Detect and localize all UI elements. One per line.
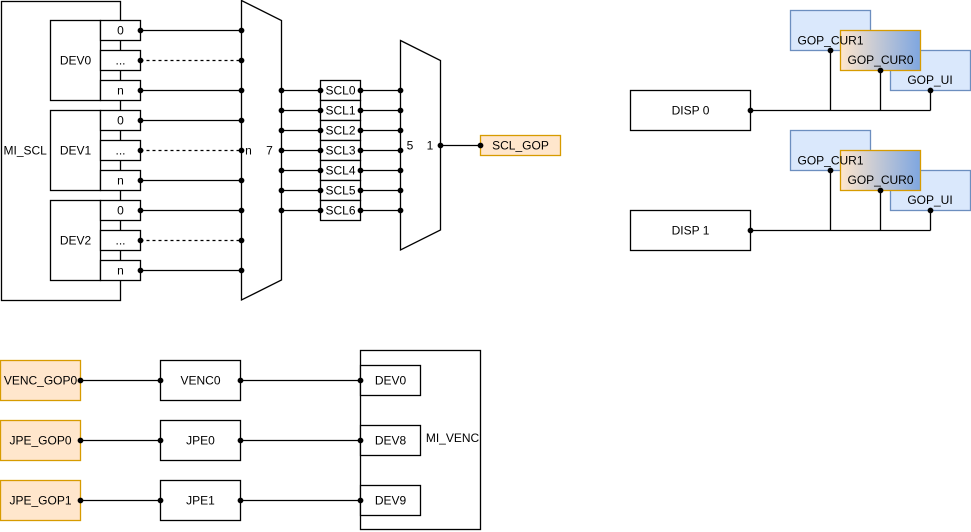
port DEV2.0 xyxy=(101,201,141,221)
wire DEV1.0 to mux1 xyxy=(138,118,245,124)
block DEV1 xyxy=(51,111,101,191)
block VENC0 xyxy=(161,361,241,401)
wire DEV0.dots to mux1 xyxy=(138,58,245,64)
block DEV0 xyxy=(51,21,101,101)
wire VENC_GOP0 to VENC0 xyxy=(78,378,164,384)
svg-text:SCL2: SCL2 xyxy=(325,124,355,138)
wire SCL4 to mux2 xyxy=(358,168,404,174)
block DEV2 xyxy=(51,201,101,281)
block GOP_UI (DISP1) xyxy=(891,171,971,211)
wire SCL1 to mux2 xyxy=(358,108,404,114)
port DEV1.n xyxy=(101,171,141,191)
block SCL1 xyxy=(321,101,361,121)
block DEV8 (MI_VENC) xyxy=(361,426,421,456)
node VENC_GOP0 xyxy=(1,361,81,401)
block JPE1 xyxy=(161,481,241,521)
block SCL4 xyxy=(321,161,361,181)
wire DEV0.0 to mux1 xyxy=(138,28,245,34)
wire mux1 to SCL0 xyxy=(279,88,324,94)
svg-text:GOP_CUR1: GOP_CUR1 xyxy=(797,34,863,48)
block SCL5 xyxy=(321,181,361,201)
wire SCL3 to mux2 xyxy=(358,148,404,154)
label GOP_UI (DISP1) xyxy=(907,193,952,207)
wire SCL6 to mux2 xyxy=(358,208,404,214)
port DEV1.dots xyxy=(101,141,141,161)
svg-text:SCL5: SCL5 xyxy=(325,184,355,198)
svg-text:DEV0: DEV0 xyxy=(60,54,92,68)
svg-text:VENC0: VENC0 xyxy=(180,374,220,388)
mux U2 (5-to-1 selector) xyxy=(401,41,441,251)
svg-text:n: n xyxy=(245,144,252,158)
block DISP 0 xyxy=(631,91,751,131)
svg-text:GOP_UI: GOP_UI xyxy=(907,193,952,207)
svg-text:1: 1 xyxy=(427,139,434,153)
label GOP_CUR0 (DISP0) xyxy=(847,53,913,67)
block SCL0 xyxy=(321,81,361,101)
block DISP 1 xyxy=(631,211,751,251)
svg-text:7: 7 xyxy=(266,144,273,158)
wire mux1 to SCL6 xyxy=(279,208,324,214)
block DEV0 (MI_VENC) xyxy=(361,366,421,396)
svg-text:0: 0 xyxy=(117,24,124,38)
wire DEV2.dots to mux1 xyxy=(138,238,245,244)
svg-text:n: n xyxy=(117,264,124,278)
label GOP_CUR1 (DISP1) xyxy=(797,154,863,168)
wire mux1 to SCL2 xyxy=(279,128,324,134)
svg-text:DISP 0: DISP 0 xyxy=(672,104,710,118)
wire DISP1 bus xyxy=(748,168,934,234)
svg-text:JPE_GOP1: JPE_GOP1 xyxy=(9,494,71,508)
svg-text:JPE1: JPE1 xyxy=(186,494,215,508)
svg-text:DEV0: DEV0 xyxy=(375,374,407,388)
block SCL3 xyxy=(321,141,361,161)
svg-text:0: 0 xyxy=(117,114,124,128)
port DEV0.n xyxy=(101,81,141,101)
block MI_VENC xyxy=(361,351,481,530)
wire DEV0.n to mux1 xyxy=(138,88,245,94)
wire DEV1.n to mux1 xyxy=(138,178,245,184)
svg-text:JPE_GOP0: JPE_GOP0 xyxy=(9,434,71,448)
svg-text:GOP_CUR1: GOP_CUR1 xyxy=(797,154,863,168)
svg-text:0: 0 xyxy=(117,204,124,218)
label GOP_UI (DISP0) xyxy=(907,73,952,87)
mux U1 (n-to-7 crossbar) xyxy=(242,1,282,301)
block GOP_UI (DISP0) xyxy=(891,51,971,91)
block GOP_CUR0 (DISP1) xyxy=(841,151,921,191)
wire SCL2 to mux2 xyxy=(358,128,404,134)
wire DEV2.n to mux1 xyxy=(138,268,245,274)
svg-text:SCL4: SCL4 xyxy=(325,164,355,178)
svg-text:SCL6: SCL6 xyxy=(325,204,355,218)
svg-text:SCL1: SCL1 xyxy=(325,104,355,118)
wire mux2 to SCL_GOP xyxy=(438,143,484,149)
label GOP_CUR0 (DISP1) xyxy=(847,173,913,187)
svg-text:DEV1: DEV1 xyxy=(60,144,92,158)
label GOP_CUR1 (DISP0) xyxy=(797,34,863,48)
wire JPE_GOP0 to JPE0 xyxy=(78,438,164,444)
port DEV0.0 xyxy=(101,21,141,41)
wire DISP0 bus xyxy=(748,48,934,114)
node JPE_GOP1 xyxy=(1,481,81,521)
svg-text:GOP_CUR0: GOP_CUR0 xyxy=(847,173,913,187)
wire JPE_GOP1 to JPE1 xyxy=(78,498,164,504)
svg-text:...: ... xyxy=(115,144,125,158)
svg-text:DEV9: DEV9 xyxy=(375,494,407,508)
svg-text:SCL0: SCL0 xyxy=(325,84,355,98)
wire mux1 to SCL1 xyxy=(279,108,324,114)
port DEV2.n xyxy=(101,261,141,281)
svg-text:n: n xyxy=(117,84,124,98)
port DEV0.dots xyxy=(101,51,141,71)
block SCL6 xyxy=(321,201,361,221)
svg-text:n: n xyxy=(117,174,124,188)
svg-text:SCL3: SCL3 xyxy=(325,144,355,158)
port DEV2.dots xyxy=(101,231,141,251)
block MI_SCL xyxy=(2,2,121,301)
svg-text:JPE0: JPE0 xyxy=(186,434,215,448)
block GOP_CUR0 (DISP0) xyxy=(841,31,921,71)
wire mux1 to SCL4 xyxy=(279,168,324,174)
svg-text:GOP_CUR0: GOP_CUR0 xyxy=(847,53,913,67)
svg-text:MI_SCL: MI_SCL xyxy=(4,144,48,158)
svg-text:...: ... xyxy=(115,54,125,68)
svg-text:DEV8: DEV8 xyxy=(375,434,407,448)
svg-text:...: ... xyxy=(115,234,125,248)
wire JPE0 to MI_VENC xyxy=(238,438,364,444)
wire SCL0 to mux2 xyxy=(358,88,404,94)
svg-text:MI_VENC: MI_VENC xyxy=(426,431,480,445)
wire VENC0 to MI_VENC xyxy=(238,378,364,384)
svg-text:DEV2: DEV2 xyxy=(60,234,92,248)
node JPE_GOP0 xyxy=(1,421,81,461)
svg-text:GOP_UI: GOP_UI xyxy=(907,73,952,87)
svg-text:DISP 1: DISP 1 xyxy=(672,224,710,238)
wire SCL5 to mux2 xyxy=(358,188,404,194)
port DEV1.0 xyxy=(101,111,141,131)
wire mux1 to SCL5 xyxy=(279,188,324,194)
svg-text:SCL_GOP: SCL_GOP xyxy=(492,139,549,153)
wire JPE1 to MI_VENC xyxy=(238,498,364,504)
wire DEV1.dots to mux1 xyxy=(138,148,245,154)
block DEV9 (MI_VENC) xyxy=(361,486,421,516)
node SCL_GOP xyxy=(481,136,561,156)
block SCL2 xyxy=(321,121,361,141)
block GOP_CUR1 (DISP1) xyxy=(791,131,871,171)
block JPE0 xyxy=(161,421,241,461)
wire mux1 to SCL3 xyxy=(279,148,324,154)
block GOP_CUR1 (DISP0) xyxy=(791,11,871,51)
svg-text:5: 5 xyxy=(407,139,414,153)
svg-text:VENC_GOP0: VENC_GOP0 xyxy=(4,374,78,388)
wire DEV2.0 to mux1 xyxy=(138,208,245,214)
